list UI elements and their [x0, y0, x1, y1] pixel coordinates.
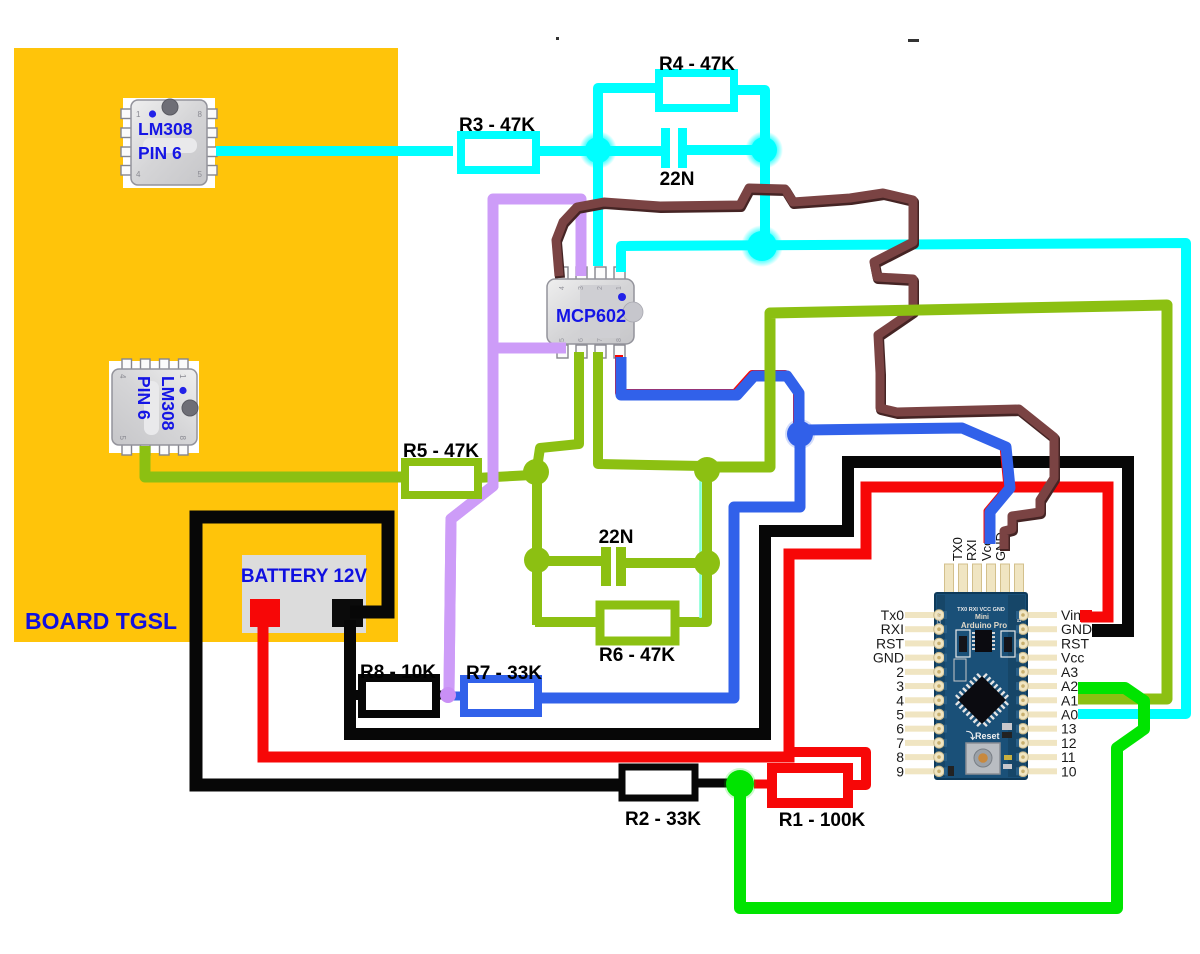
svg-text:9: 9 [896, 763, 904, 779]
svg-text:1: 1 [178, 374, 187, 379]
svg-text:RXI: RXI [964, 539, 979, 561]
svg-text:8: 8 [616, 338, 623, 342]
svg-text:R7 - 33K: R7 - 33K [466, 663, 542, 684]
svg-text:MCP602: MCP602 [556, 306, 626, 326]
svg-text:BOARD TGSL: BOARD TGSL [25, 608, 177, 634]
svg-text:R5 - 47K: R5 - 47K [403, 441, 479, 462]
svg-text:GRN: GRN [937, 612, 943, 624]
svg-text:Mini: Mini [975, 614, 989, 621]
svg-text:R4 - 47K: R4 - 47K [659, 54, 735, 75]
svg-text:PIN 6: PIN 6 [134, 376, 154, 420]
svg-text:PIN 6: PIN 6 [138, 143, 182, 163]
svg-text:4: 4 [118, 374, 127, 379]
svg-text:⤵Reset: ⤵Reset [966, 730, 1000, 741]
svg-text:8: 8 [178, 436, 187, 441]
svg-text:LM308: LM308 [138, 119, 193, 139]
svg-text:8: 8 [198, 110, 203, 119]
svg-text:3: 3 [578, 286, 585, 290]
svg-text:R1 - 100K: R1 - 100K [779, 810, 866, 831]
svg-text:TX0 RXI VCC GND: TX0 RXI VCC GND [957, 607, 1005, 613]
svg-text:BATTERY 12V: BATTERY 12V [241, 566, 368, 587]
svg-text:4: 4 [559, 286, 566, 290]
svg-text:2: 2 [597, 286, 604, 290]
svg-text:5: 5 [559, 338, 566, 342]
svg-text:R6 - 47K: R6 - 47K [599, 645, 675, 666]
svg-text:22N: 22N [660, 169, 695, 190]
svg-text:6: 6 [578, 338, 585, 342]
svg-text:22N: 22N [599, 527, 634, 548]
svg-text:1: 1 [136, 110, 141, 119]
svg-text:4: 4 [136, 170, 141, 179]
svg-text:5: 5 [198, 170, 203, 179]
svg-text:Arduino Pro: Arduino Pro [961, 621, 1007, 630]
svg-text:R2 - 33K: R2 - 33K [625, 809, 701, 830]
svg-text:LM308: LM308 [158, 376, 178, 431]
svg-text:5: 5 [118, 436, 127, 441]
svg-text:10: 10 [1061, 763, 1077, 779]
svg-text:1: 1 [616, 286, 623, 290]
svg-text:7: 7 [597, 338, 604, 342]
svg-text:R3 - 47K: R3 - 47K [459, 115, 535, 136]
svg-text:TX0: TX0 [950, 537, 965, 561]
svg-text:R8 - 10K: R8 - 10K [360, 662, 436, 683]
